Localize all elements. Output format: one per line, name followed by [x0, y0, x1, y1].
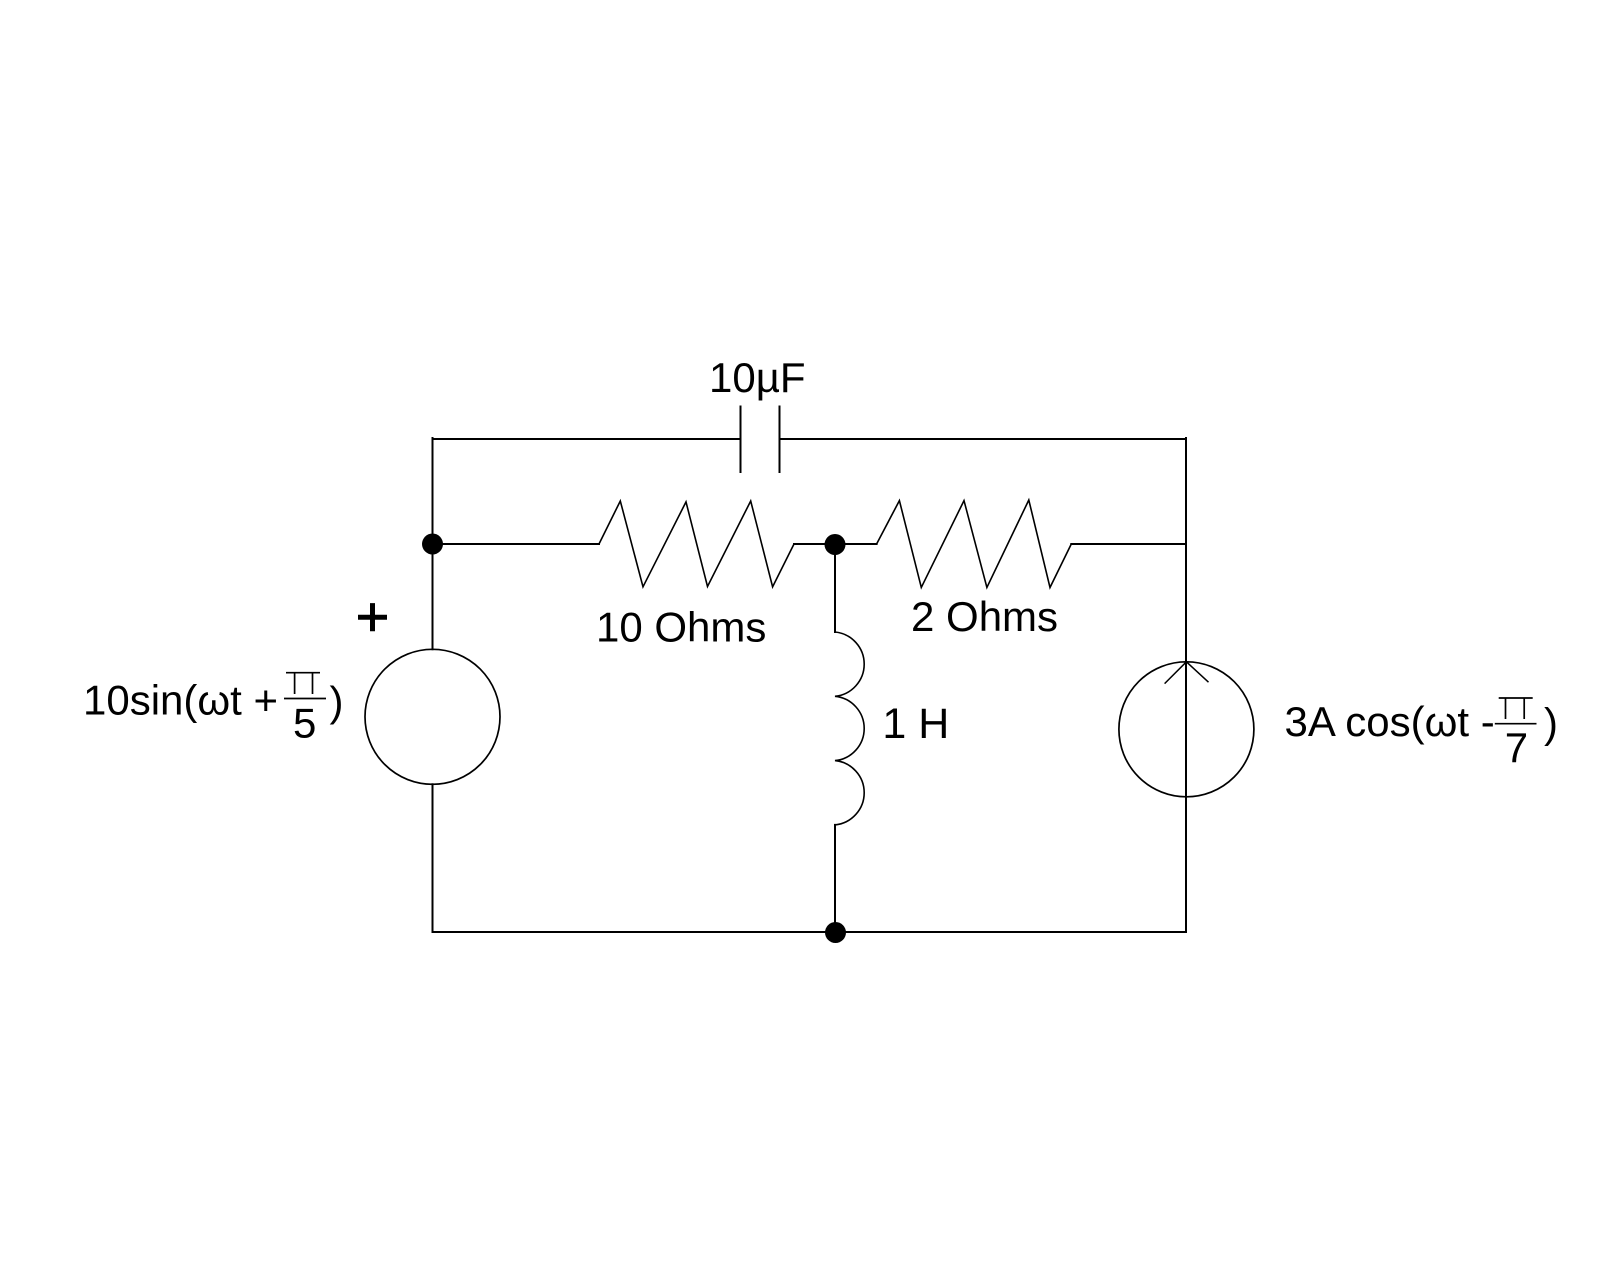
- svg-text:1 H: 1 H: [882, 700, 949, 748]
- svg-text:): ): [330, 678, 344, 725]
- svg-text:10 Ohms: 10 Ohms: [596, 604, 766, 651]
- svg-text:7: 7: [1505, 724, 1528, 771]
- svg-text:10sin(ωt +: 10sin(ωt +: [83, 676, 278, 723]
- svg-text:): ): [1544, 700, 1558, 747]
- svg-text:2 Ohms: 2 Ohms: [911, 593, 1058, 640]
- svg-text:3A cos(ωt -: 3A cos(ωt -: [1285, 698, 1495, 745]
- svg-text:10µF: 10µF: [709, 354, 806, 401]
- svg-text:5: 5: [293, 699, 316, 746]
